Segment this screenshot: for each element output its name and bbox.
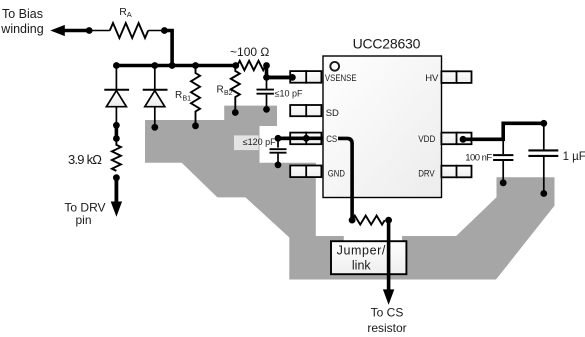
svg-text:resistor: resistor (367, 321, 406, 335)
svg-text:To CS: To CS (371, 306, 404, 320)
svg-text:UCC28630: UCC28630 (353, 36, 421, 52)
svg-text:A: A (127, 10, 132, 19)
svg-text:CS: CS (326, 134, 337, 145)
svg-text:≤120 pF: ≤120 pF (243, 137, 276, 147)
svg-text:B2: B2 (224, 90, 233, 97)
svg-text:SD: SD (326, 108, 339, 119)
svg-text:R: R (217, 85, 224, 96)
svg-text:pin: pin (75, 213, 91, 227)
svg-text:1 µF: 1 µF (563, 151, 585, 163)
svg-text:≤10 pF: ≤10 pF (275, 88, 303, 98)
svg-text:R: R (175, 90, 182, 101)
svg-text:To Bias: To Bias (2, 7, 43, 21)
svg-text:DRV: DRV (418, 168, 435, 179)
svg-text:Jumper/: Jumper/ (337, 244, 386, 258)
svg-text:B1: B1 (183, 96, 192, 103)
svg-text:link: link (352, 258, 372, 272)
svg-text:VDD: VDD (418, 134, 435, 145)
svg-text:HV: HV (425, 73, 439, 84)
svg-text:winding: winding (0, 22, 43, 36)
svg-text:100 nF: 100 nF (465, 152, 492, 163)
svg-text:GND: GND (328, 168, 345, 179)
svg-text:VSENSE: VSENSE (325, 73, 357, 84)
svg-text:3.9 kΩ: 3.9 kΩ (68, 152, 102, 167)
svg-text:~100 Ω: ~100 Ω (230, 45, 269, 59)
